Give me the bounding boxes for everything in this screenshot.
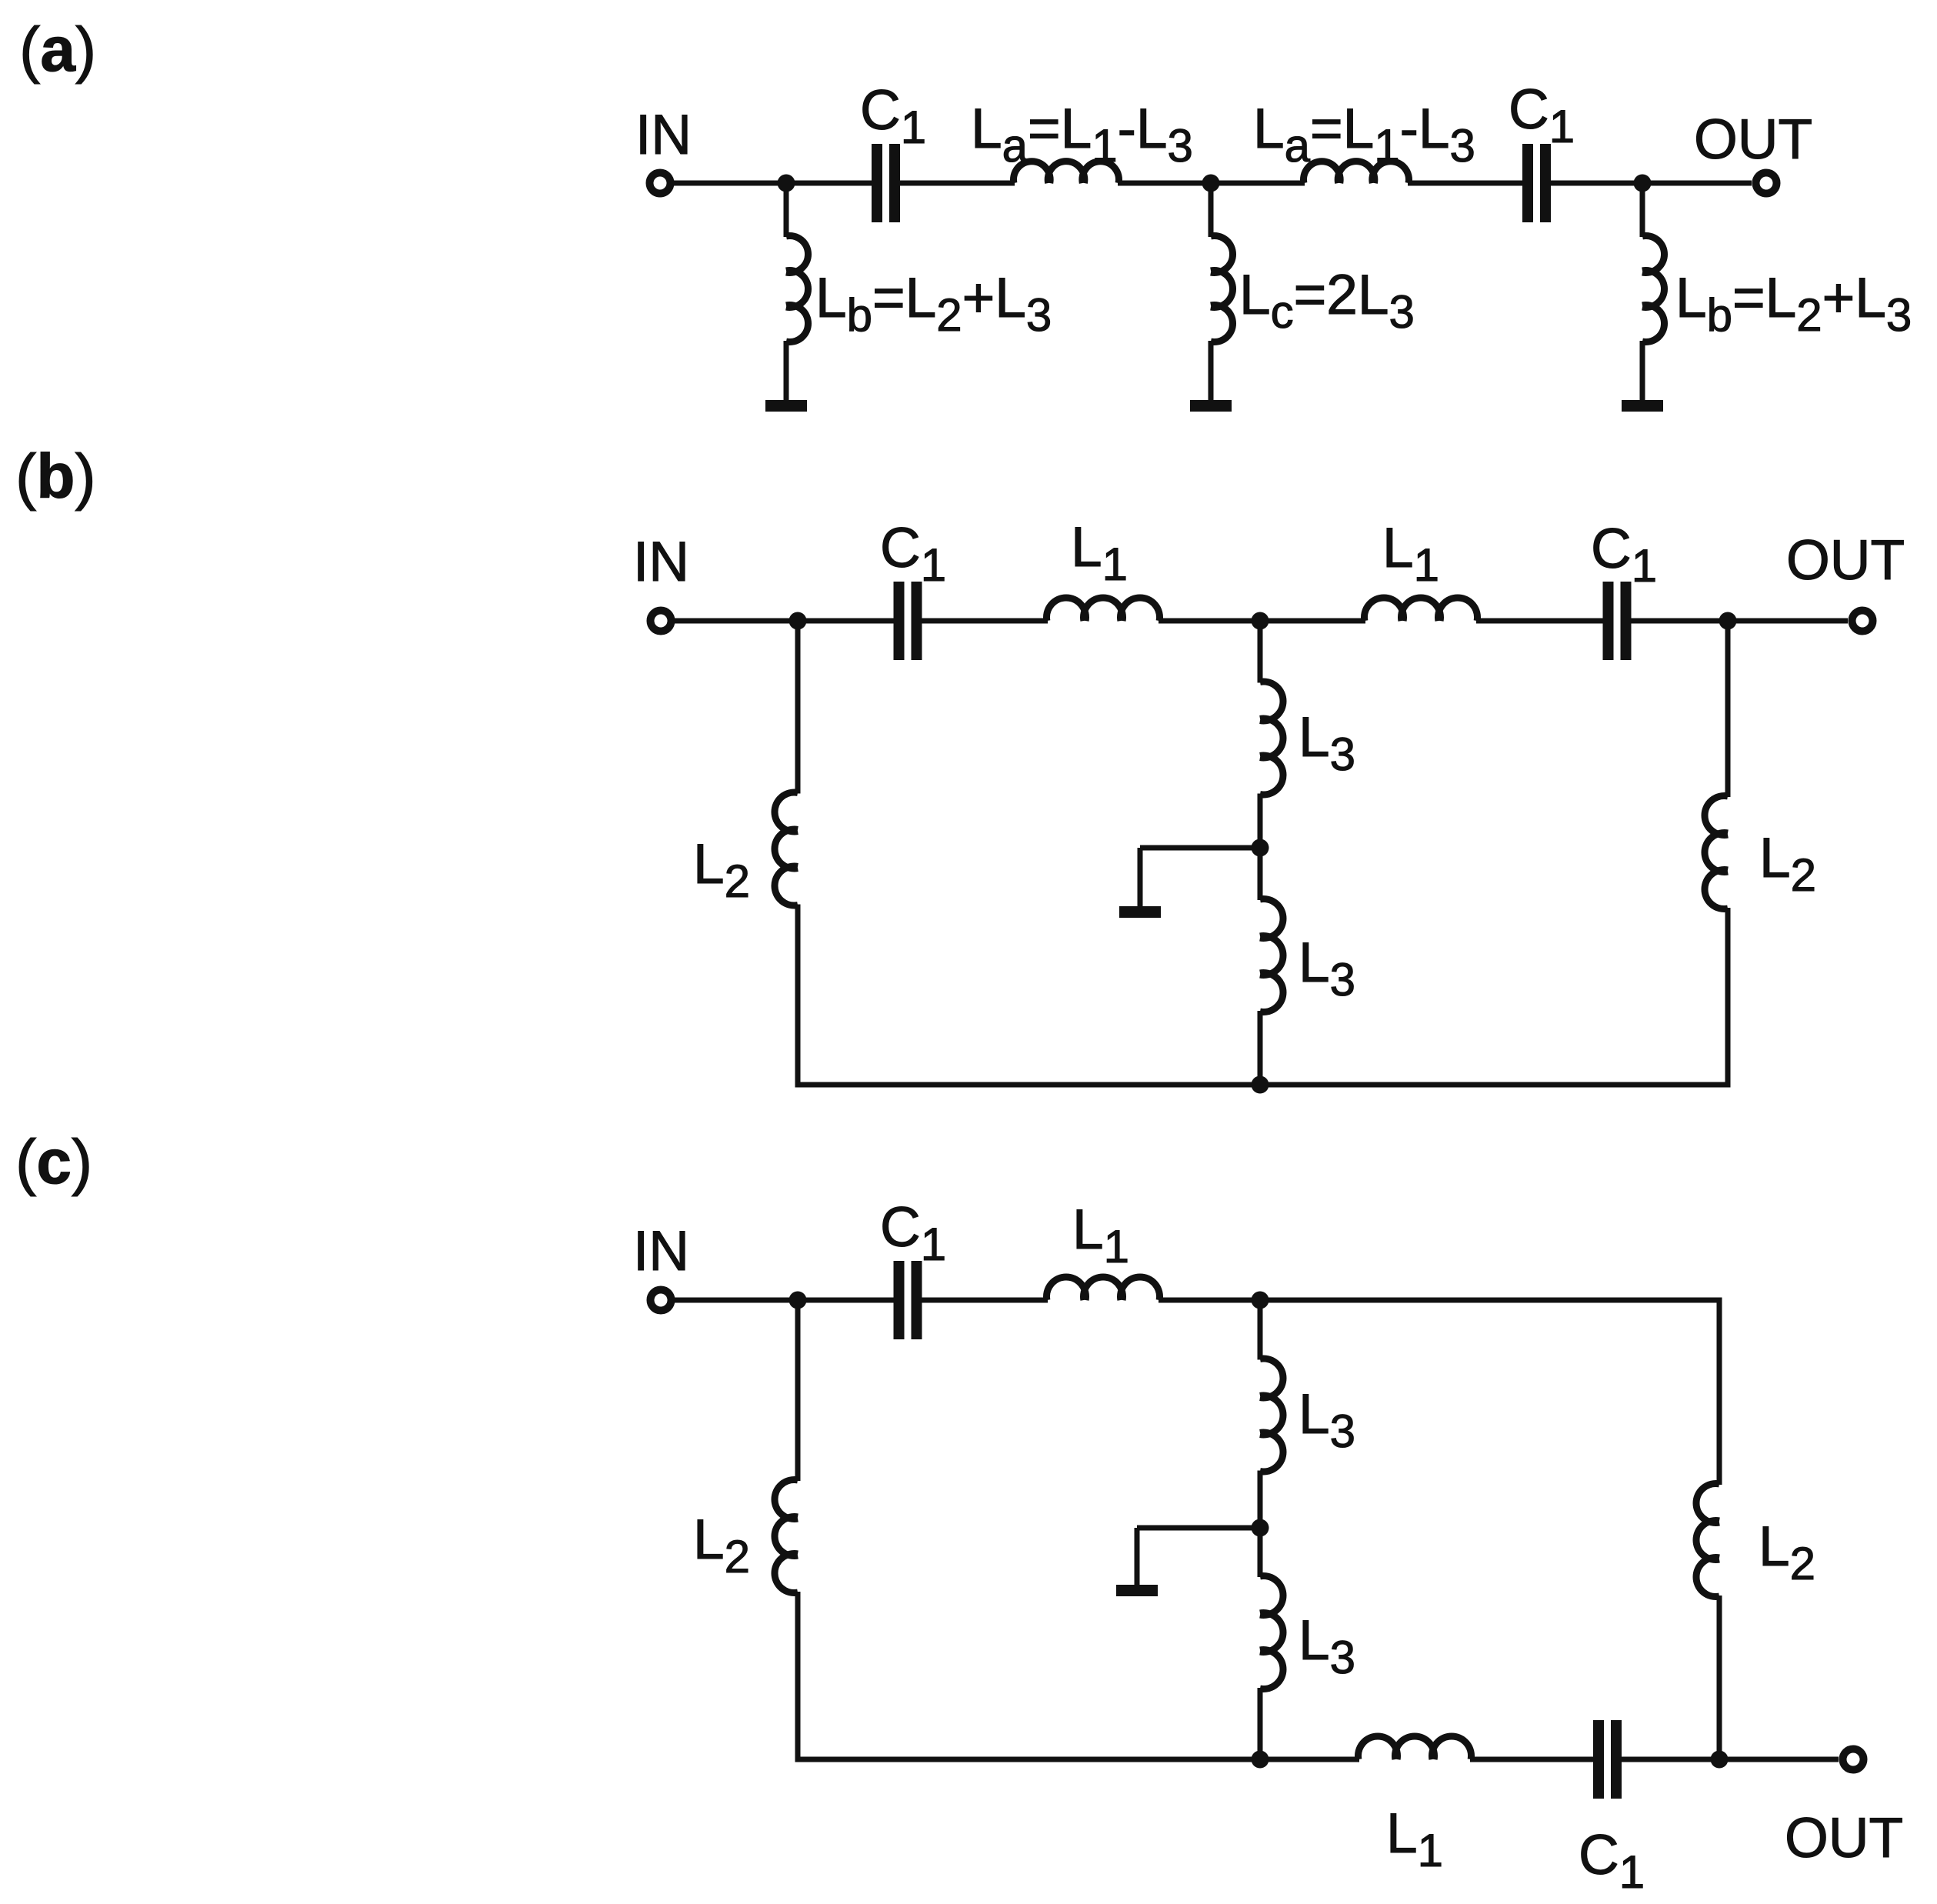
svg-text:C1​: C1​	[1579, 1824, 1645, 1898]
svg-text:L3​: L3​	[1299, 1383, 1355, 1457]
svg-text:C1​: C1​	[860, 79, 926, 153]
svg-text:La​=L1​-L3​: La​=L1​-L3​	[971, 98, 1193, 172]
svg-text:C1​: C1​	[880, 517, 946, 591]
svg-text:L3​: L3​	[1299, 1609, 1355, 1683]
svg-text:OUT: OUT	[1786, 529, 1905, 592]
svg-text:C1​: C1​	[1591, 518, 1657, 592]
svg-text:OUT: OUT	[1694, 108, 1812, 171]
svg-text:Lb​=L2​+L3​: Lb​=L2​+L3​	[1675, 267, 1912, 341]
svg-text:L1​: L1​	[1382, 517, 1439, 591]
svg-text:L2​: L2​	[693, 833, 750, 907]
svg-text:L2​: L2​	[693, 1509, 750, 1582]
svg-text:(b): (b)	[15, 442, 96, 512]
svg-text:L3​: L3​	[1299, 932, 1355, 1005]
svg-text:Lc​=2L3​: Lc​=2L3​	[1239, 264, 1415, 338]
svg-text:C1​: C1​	[880, 1196, 946, 1270]
svg-text:L1​: L1​	[1386, 1802, 1443, 1876]
svg-text:IN: IN	[635, 104, 692, 166]
svg-text:Lb​=L2​+L3​: Lb​=L2​+L3​	[815, 267, 1052, 341]
svg-text:C1​: C1​	[1509, 78, 1575, 152]
svg-text:L1​: L1​	[1071, 516, 1128, 590]
svg-text:L3​: L3​	[1299, 706, 1355, 780]
svg-text:IN: IN	[633, 1220, 689, 1282]
svg-text:L2​: L2​	[1759, 1516, 1815, 1589]
svg-text:L2​: L2​	[1759, 827, 1816, 901]
svg-text:OUT: OUT	[1785, 1807, 1903, 1869]
svg-text:(a): (a)	[19, 15, 96, 85]
svg-text:L1​: L1​	[1072, 1199, 1129, 1272]
svg-text:IN: IN	[633, 531, 689, 593]
svg-text:(c): (c)	[15, 1127, 92, 1197]
